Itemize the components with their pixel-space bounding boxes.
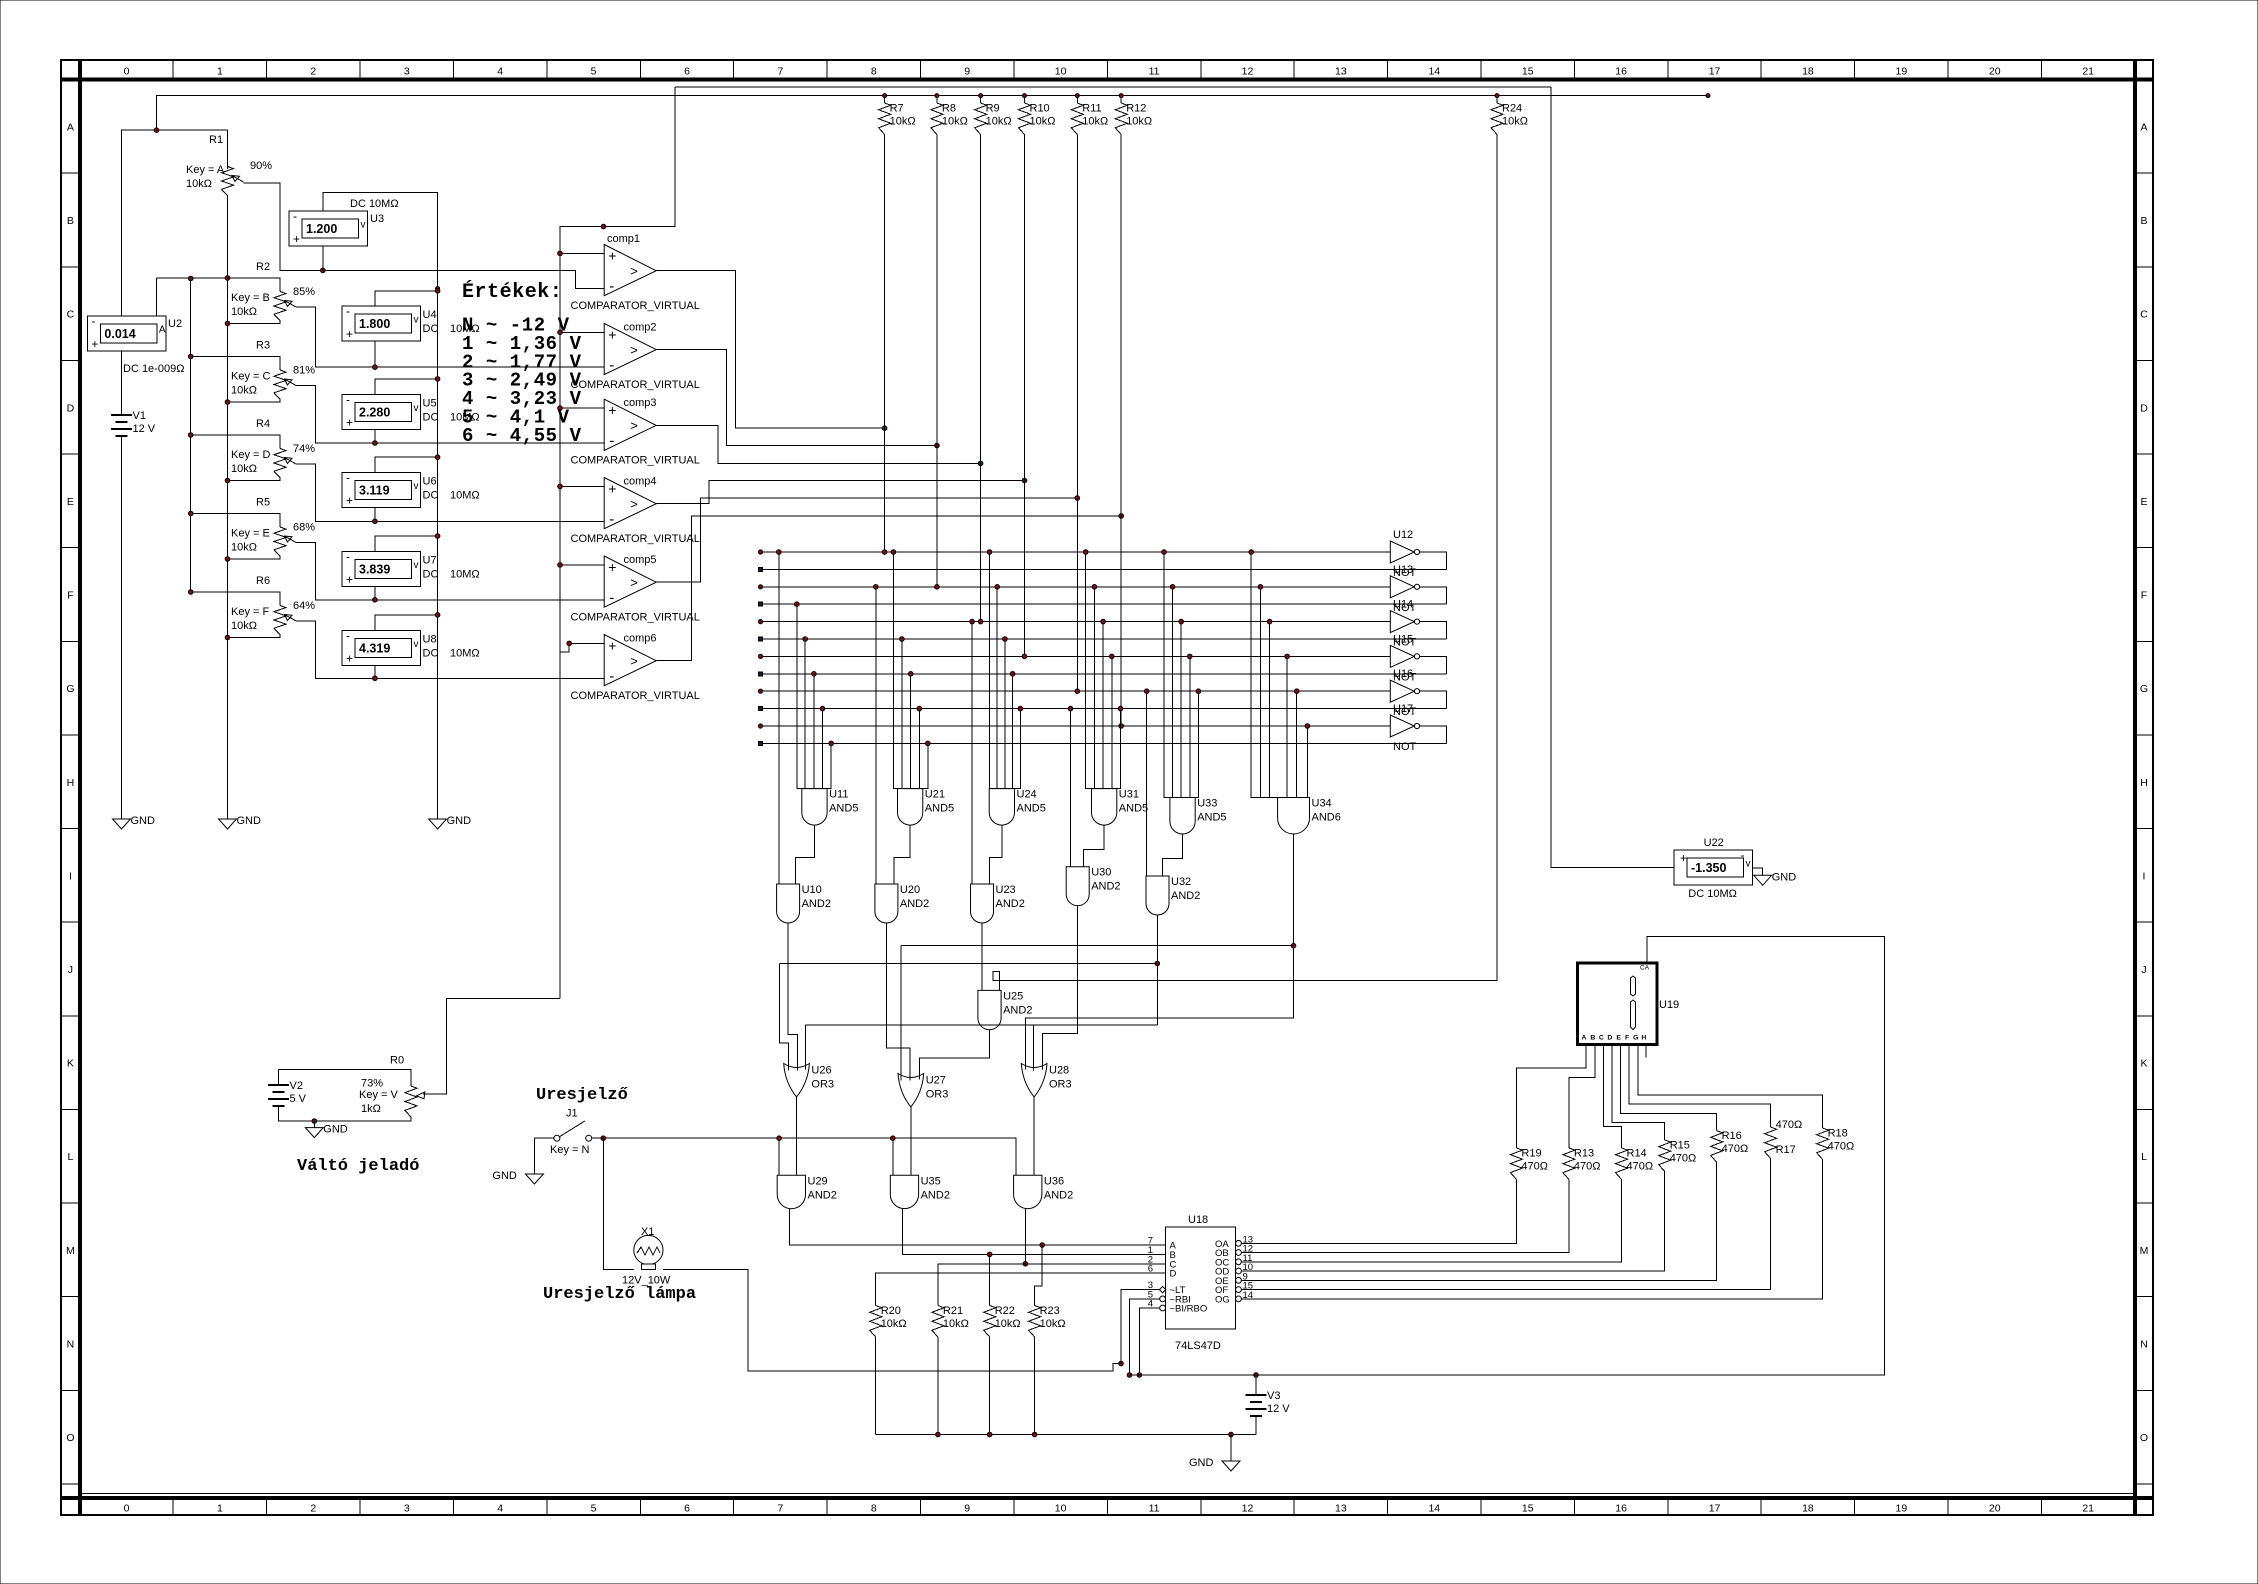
AND5 gate U11 [802,789,827,826]
svg-text:+: + [608,559,616,575]
svg-text:10kΩ: 10kΩ [231,385,257,397]
U18 pin 9 OE [1236,1277,1242,1283]
svg-text:R8: R8 [942,103,956,115]
wire R4 bottom lead [228,478,281,481]
svg-text:comp6: comp6 [624,633,657,645]
comparator comp2 [604,323,656,374]
wire display segment E [1621,1043,1717,1131]
svg-text:U2: U2 [168,318,182,330]
svg-text:1.200: 1.200 [306,222,337,236]
svg-text:C: C [2140,309,2148,321]
comparator comp6 [604,635,656,686]
svg-text:GND: GND [237,815,262,827]
svg-text:R17: R17 [1776,1144,1796,1156]
voltmeter U3 [289,211,368,246]
svg-text:D: D [1170,1269,1177,1280]
U18 pin 12 OB [1236,1250,1242,1256]
AND2 gate U35 [890,1175,918,1208]
svg-text:AND5: AND5 [1017,803,1046,815]
svg-text:R5: R5 [256,497,270,509]
svg-text:AND6: AND6 [1312,812,1341,824]
wire U23 input drop [971,622,973,884]
resistor R12 [1120,96,1122,103]
wire V2 R0 loop [278,1069,280,1085]
wire R4 wiper to comparator [296,464,604,521]
svg-text:12: 12 [1242,1503,1254,1515]
wire U31 output to U30 [1084,825,1105,867]
wire V3 minus [1255,1416,1257,1435]
U18 pin 5 ~RBI [1150,1298,1159,1300]
svg-text:-: - [1741,848,1745,862]
wire U20 output to U27 [886,923,910,1081]
OR3 gate U28 [1021,1064,1047,1097]
wire U24 input drop [989,552,991,789]
AND5 gate U31 [1092,789,1117,826]
svg-text:R1: R1 [209,134,223,146]
wire U17 output loop [1419,726,1446,743]
svg-text:R20: R20 [881,1305,901,1317]
svg-text:11: 11 [1149,1503,1160,1515]
svg-text:v: v [414,639,419,650]
svg-text:-: - [609,433,614,450]
svg-text:I: I [69,870,72,882]
wire voltmeter bus [437,291,439,819]
wire U6 bottom lead [374,508,376,522]
U18 pin 13 OA [1236,1240,1242,1246]
svg-text:v: v [1746,859,1751,870]
svg-text:90%: 90% [250,160,272,172]
svg-text:L: L [67,1151,73,1163]
svg-text:B: B [1590,1035,1595,1042]
U18 pin 1 B [1155,1253,1165,1255]
wire J1 drop to U35 [892,1138,894,1175]
svg-text:64%: 64% [293,600,315,612]
svg-text:GND: GND [1189,1457,1214,1469]
wire selector signal to comp6 [560,643,604,652]
wire U21 input drop [910,674,912,789]
svg-text:F: F [2141,590,2147,602]
comparator comp1 [604,245,656,296]
svg-text:Key = E: Key = E [231,528,270,540]
U18 pin 6 D [1155,1272,1165,1274]
svg-text:R22: R22 [995,1305,1015,1317]
svg-text:U16: U16 [1393,668,1413,680]
wire digit6 net to U27 [901,945,1294,947]
svg-text:U10: U10 [802,884,822,896]
svg-text:R21: R21 [943,1305,963,1317]
svg-text:AND2: AND2 [996,898,1025,910]
wire U18 output 7 [1241,1160,1822,1299]
svg-text:B: B [67,215,74,227]
svg-text:10kΩ: 10kΩ [1082,116,1108,128]
svg-text:DC: DC [423,323,439,335]
resistor R15 [1659,1140,1671,1172]
svg-text:16: 16 [1615,1503,1627,1515]
svg-text:R13: R13 [1574,1147,1594,1159]
svg-text:OR3: OR3 [1049,1079,1072,1091]
wire U32 net drop to U28 [1033,1025,1035,1070]
wire LT control [1121,1290,1150,1364]
svg-text:-: - [346,549,350,563]
svg-text:15: 15 [1522,1503,1534,1515]
svg-text:10kΩ: 10kΩ [1030,116,1056,128]
resistor R19 [1510,1148,1522,1180]
wire selector from R0 [424,998,560,1094]
voltmeter U6 [342,473,421,508]
svg-text:N: N [67,1338,75,1350]
wire R5 bottom lead [228,556,281,559]
svg-text:AND5: AND5 [1119,803,1148,815]
wire R4 top lead [191,435,280,449]
wire U31 input drop [1093,587,1095,789]
wire U16 output loop [1419,691,1446,708]
svg-text:AND2: AND2 [900,898,929,910]
resistor R24 [1496,96,1498,103]
svg-text:470Ω: 470Ω [1776,1119,1803,1131]
wire U33 input drop [1197,691,1199,797]
wire comp5 output [656,498,1077,582]
wire pull-up top rail [675,86,1551,88]
svg-text:+: + [1680,851,1687,865]
svg-text:AND2: AND2 [1171,890,1200,902]
wire display segment B [1569,1043,1595,1148]
ground [305,1128,323,1138]
wire U18 output 6 [1241,1159,1770,1290]
svg-text:AND5: AND5 [925,803,954,815]
wire U30 output to U28 [1043,906,1078,1070]
svg-text:9: 9 [964,66,970,78]
svg-text:E: E [1616,1035,1621,1042]
ground [429,819,447,829]
svg-text:8: 8 [871,66,877,78]
wire U33 input drop [1163,552,1165,798]
svg-text:Értékek:: Értékek: [462,280,562,304]
svg-text:>: > [630,575,638,590]
svg-text:COMPARATOR_VIRTUAL: COMPARATOR_VIRTUAL [571,533,700,545]
svg-text:U36: U36 [1044,1175,1064,1187]
wire U20 input drop [875,587,877,884]
lamp X1 [634,1235,663,1264]
U18 pin 4 ~BI/RBO [1150,1307,1159,1309]
svg-text:comp5: comp5 [624,554,657,566]
wire digit6 drop to U27 [900,946,902,1081]
svg-text:comp2: comp2 [624,321,657,333]
svg-text:0.014: 0.014 [104,327,135,341]
resistor R9 [980,96,982,103]
svg-text:>: > [630,418,638,433]
svg-text:17: 17 [1709,66,1721,78]
svg-text:85%: 85% [293,286,315,298]
svg-text:10kΩ: 10kΩ [231,306,257,318]
U18 pin 2 C [1155,1263,1165,1265]
wire U18 output 2 [1241,1179,1569,1252]
svg-text:Key = V: Key = V [359,1089,398,1101]
OR3 gate U27 [898,1074,924,1107]
svg-text:v: v [414,315,419,326]
svg-text:AND2: AND2 [808,1189,837,1201]
svg-text:COMPARATOR_VIRTUAL: COMPARATOR_VIRTUAL [571,612,700,624]
AND2 gate U20 [875,884,898,923]
wire U30 input drop [1070,709,1072,867]
wire R6 bottom lead [228,635,281,638]
wire D line [876,1273,1155,1306]
svg-text:U22: U22 [1704,837,1724,849]
svg-text:>: > [630,342,638,357]
svg-text:DC: DC [423,411,439,423]
NOT gate U12 [1390,541,1414,563]
wire U18 output 1 [1241,1179,1516,1243]
battery V3 [1255,1394,1257,1396]
NOT gate U15 [1390,645,1414,667]
svg-text:U25: U25 [1003,990,1023,1002]
wire U31 input drop [1102,622,1104,789]
svg-text:U7: U7 [423,554,437,566]
svg-text:Uresjelző lámpa: Uresjelző lámpa [543,1285,696,1304]
svg-text:19: 19 [1896,66,1908,78]
svg-text:H: H [1641,1035,1646,1042]
svg-text:NOT: NOT [1393,741,1417,753]
svg-text:>: > [630,497,638,512]
wire U2 top to R1 top [122,130,228,316]
wire J1 to ground [533,1138,535,1174]
wire U7 bottom lead [374,586,376,599]
wire U11 input drop [822,709,824,789]
svg-text:R18: R18 [1828,1128,1848,1140]
svg-text:V3: V3 [1267,1390,1280,1402]
svg-text:C: C [1599,1035,1604,1042]
svg-text:10kΩ: 10kΩ [186,178,212,190]
svg-text:R3: R3 [256,340,270,352]
svg-text:19: 19 [1896,1503,1908,1515]
wire rail ground drop [1230,1435,1232,1462]
battery V2 [278,1084,280,1086]
wire U33 input drop [1172,587,1174,798]
wire U11 output to U10 [795,825,814,884]
wire comp4 output [656,481,1024,504]
wire J1 drop to U29 [778,1138,780,1175]
wire R24 net to U25 [993,153,1497,991]
wire U33 input drop [1180,622,1182,798]
svg-text:U35: U35 [921,1175,941,1187]
wire comp5 plus input [560,564,604,566]
svg-text:+: + [608,638,616,654]
svg-text:-: - [293,209,297,223]
wire R22 pullup [989,1254,991,1305]
wire comp6 column [1120,141,1122,726]
OR3 gate U26 [784,1064,810,1097]
svg-text:68%: 68% [293,522,315,534]
wire U34 input drop [1259,587,1261,798]
wire R5 wiper to comparator [296,543,604,600]
svg-text:CA: CA [1640,965,1650,972]
wire U24 input drop [1019,709,1021,789]
AND2 gate U29 [777,1175,805,1208]
wire U31 input drop [1111,656,1113,788]
svg-text:OR3: OR3 [811,1079,834,1091]
svg-text:U21: U21 [925,789,945,801]
wire V3 plus [1255,1375,1257,1395]
wire top rail to U22 [1551,87,1674,868]
svg-text:COMPARATOR_VIRTUAL: COMPARATOR_VIRTUAL [571,379,700,391]
svg-text:U4: U4 [423,309,437,321]
wire J1 net [606,1138,1016,1175]
svg-text:12 V: 12 V [133,423,156,435]
svg-text:2: 2 [310,66,316,78]
svg-text:18: 18 [1802,66,1814,78]
svg-text:U19: U19 [1659,999,1679,1011]
svg-text:R4: R4 [256,418,270,430]
wire U6 top lead [375,457,438,472]
svg-text:4: 4 [497,66,503,78]
svg-text:-: - [609,278,614,295]
svg-text:U32: U32 [1171,876,1191,888]
wire U11 input drop [830,743,832,788]
AND5 gate U33 [1170,798,1195,834]
wire comp3 plus input [560,407,604,409]
svg-text:A: A [159,325,166,336]
wire U3 bottom lead [322,246,324,270]
svg-text:-: - [346,304,350,318]
svg-text:-: - [609,590,614,607]
svg-text:R9: R9 [986,103,1000,115]
svg-text:-: - [609,357,614,374]
svg-text:V2: V2 [290,1080,303,1092]
wire R2 wiper to comparator [296,307,604,367]
svg-text:U14: U14 [1393,599,1413,611]
U18 pin 14 OG [1236,1296,1242,1302]
svg-text:-: - [609,668,614,685]
svg-text:+: + [608,326,616,342]
resistor R11 [1076,96,1078,103]
svg-text:8: 8 [871,1503,877,1515]
svg-text:10kΩ: 10kΩ [890,116,916,128]
comparator comp5 [604,556,656,607]
wire U10 input drop [778,552,780,884]
svg-text:+: + [608,481,616,497]
svg-text:7: 7 [777,1503,783,1515]
svg-text:G: G [1633,1035,1638,1042]
svg-text:R15: R15 [1670,1139,1690,1151]
svg-text:R10: R10 [1030,103,1050,115]
resistor R21 [937,1305,939,1307]
svg-text:+: + [346,327,353,341]
wire U11 input drop [796,604,798,788]
svg-text:U12: U12 [1393,529,1413,541]
potentiometer R0 [405,1086,417,1117]
svg-text:AND2: AND2 [1091,881,1120,893]
svg-text:GND: GND [131,815,156,827]
svg-text:+: + [608,248,616,264]
svg-text:N: N [2140,1338,2148,1350]
svg-text:A: A [67,121,74,133]
wire U12 output loop [1419,552,1446,569]
wire U18 output 4 [1241,1171,1664,1271]
svg-text:U5: U5 [423,397,437,409]
NOT gate U16 [1390,680,1414,702]
svg-text:U18: U18 [1188,1214,1208,1226]
svg-text:2.280: 2.280 [359,405,390,419]
svg-text:-: - [346,392,350,406]
wire U33 output to U32 [1162,834,1182,876]
wire chain R1 bottom junction [157,277,281,279]
svg-text:E: E [67,496,74,508]
svg-text:GND: GND [492,1170,517,1182]
AND2 gate U23 [971,884,994,923]
wire U24 input drop [996,587,998,789]
wire comp1 column [884,141,886,552]
wire U5 top lead [375,379,438,394]
potentiometer R6 [274,606,286,635]
svg-text:G: G [2140,683,2148,695]
svg-text:3: 3 [404,66,410,78]
wire U27 output to U35 [910,1107,912,1175]
svg-text:U15: U15 [1393,633,1413,645]
svg-text:R19: R19 [1521,1147,1541,1159]
resistor R7 [884,96,886,103]
wire display pin H stub [1645,1043,1647,1058]
svg-text:DC: DC [423,568,439,580]
svg-text:X1: X1 [641,1226,654,1238]
svg-text:OR3: OR3 [926,1089,949,1101]
svg-text:10kΩ: 10kΩ [231,463,257,475]
wire U32 net drop to U26 [805,1025,807,1069]
svg-text:9: 9 [964,1503,970,1515]
wire U24 input drop [1004,639,1006,789]
wire U3 top loop [323,192,438,290]
svg-text:R0: R0 [390,1055,404,1067]
wire comp5 column [1076,141,1078,691]
svg-text:comp4: comp4 [624,476,657,488]
resistor R20 [875,1305,877,1307]
switch J1 [534,1137,554,1139]
svg-text:1: 1 [217,1503,223,1515]
svg-text:16: 16 [1615,66,1627,78]
svg-text:7: 7 [777,66,783,78]
svg-text:U29: U29 [808,1175,828,1187]
wire J1 to lamp [603,1138,634,1269]
svg-text:5 V: 5 V [290,1093,307,1105]
ground [113,819,131,829]
wire display segment C [1603,1043,1621,1148]
svg-text:10kΩ: 10kΩ [986,116,1012,128]
ground [525,1174,543,1184]
wire BIRBO to 12V [1139,1308,1150,1375]
svg-text:6: 6 [684,1503,690,1515]
svg-text:6: 6 [1148,1264,1153,1275]
wire R3 top lead [191,357,280,371]
svg-text:5: 5 [591,1503,597,1515]
voltmeter U8 [342,630,421,665]
svg-text:14: 14 [1428,1503,1440,1515]
svg-text:U20: U20 [900,884,920,896]
svg-text:AND2: AND2 [921,1189,950,1201]
U18 pin 11 OC [1236,1259,1242,1265]
svg-text:AND5: AND5 [829,803,858,815]
svg-text:v: v [414,560,419,571]
svg-text:G: G [66,683,74,695]
svg-text:4: 4 [497,1503,503,1515]
svg-text:R6: R6 [256,575,270,587]
potentiometer R5 [274,527,286,556]
svg-text:470Ω: 470Ω [1670,1152,1697,1164]
svg-text:O: O [66,1432,74,1444]
wire comp1 output [656,271,884,429]
wire U34 output to U28 [1026,834,1294,1070]
voltmeter U5 [342,394,421,429]
wire U11 input drop [813,674,815,789]
svg-text:20: 20 [1989,1503,2001,1515]
AND5 gate U21 [898,789,923,826]
